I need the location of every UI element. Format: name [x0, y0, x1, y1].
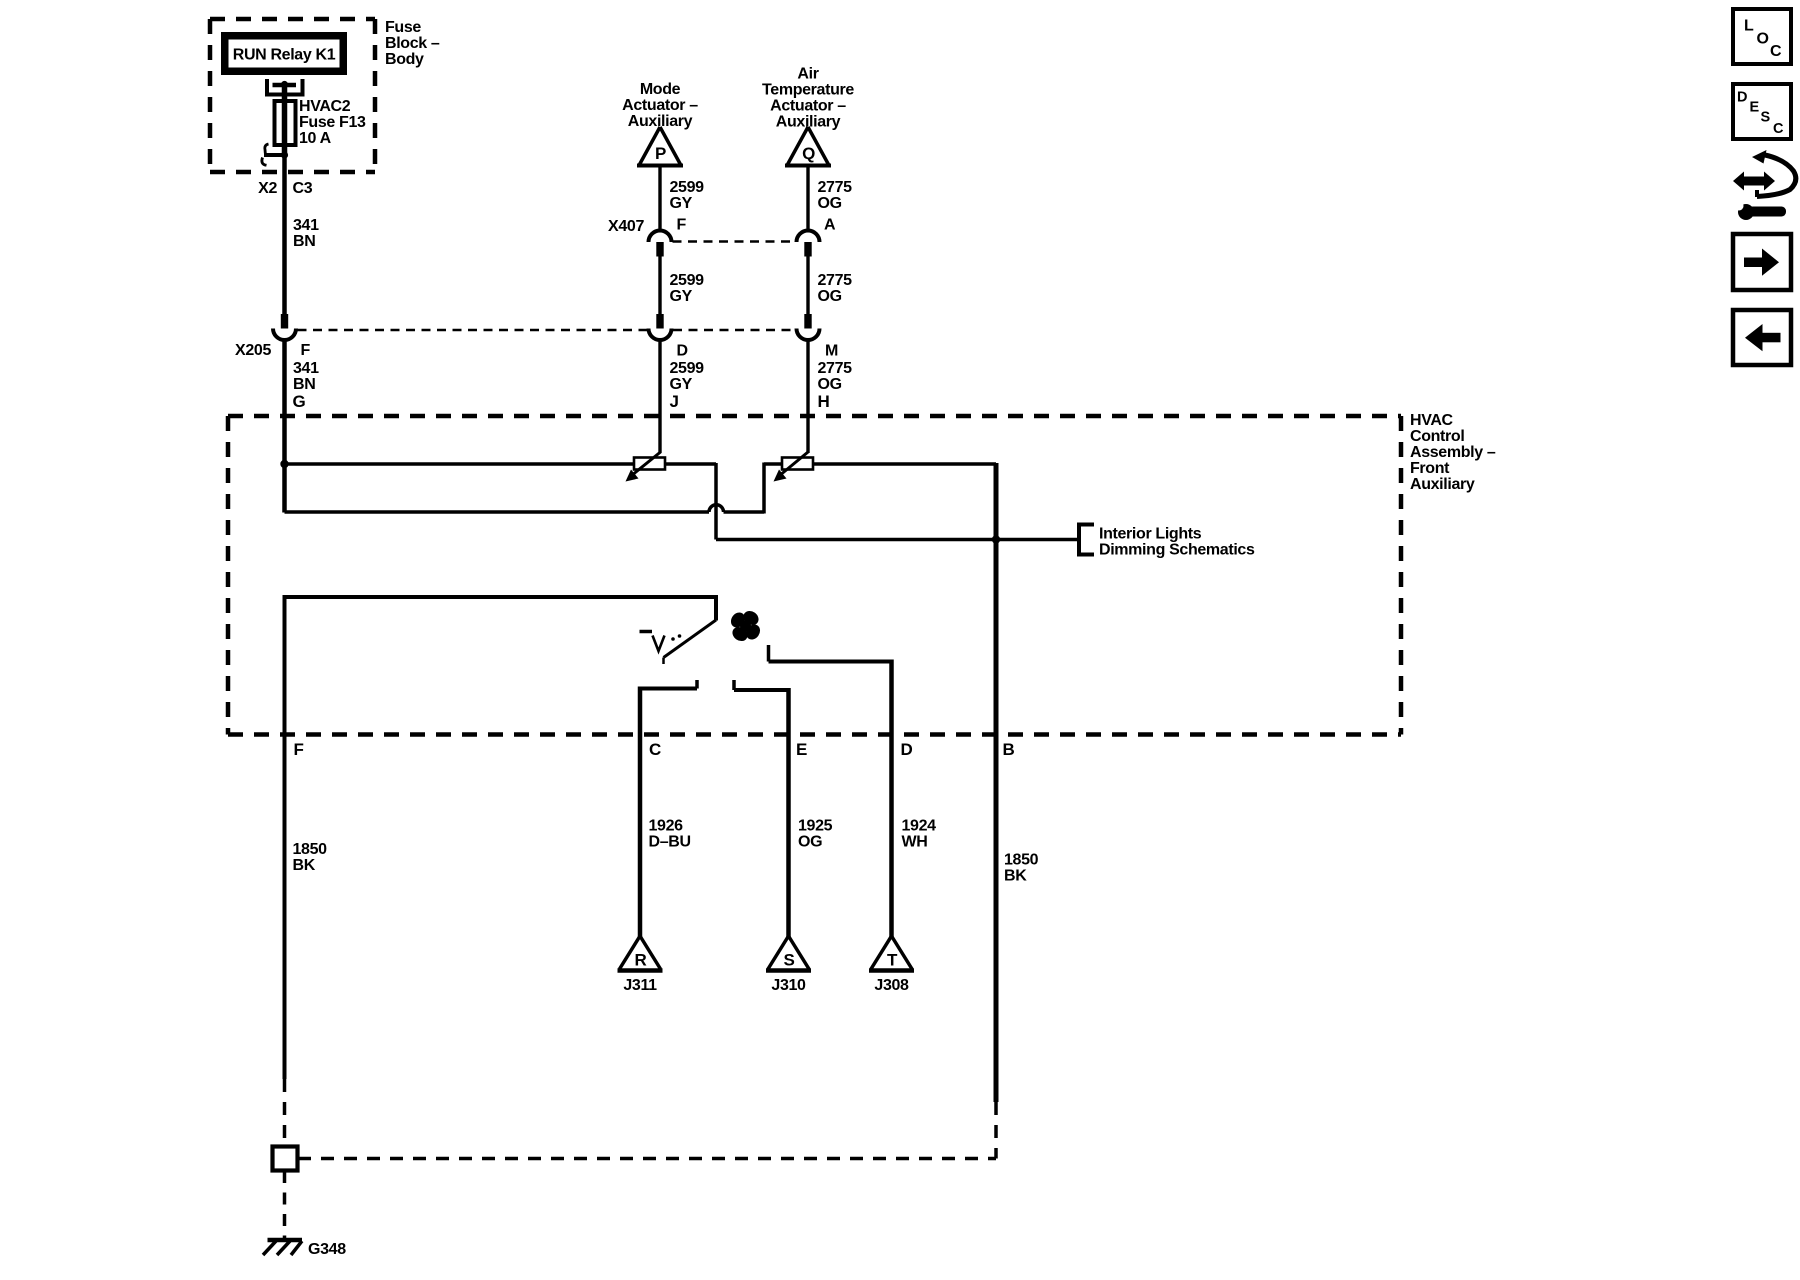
svg-text:1924: 1924 [902, 818, 937, 835]
wire line B lower [285, 463, 997, 514]
svg-text:Fuse F13: Fuse F13 [299, 114, 366, 131]
label 341 BN G [293, 360, 320, 411]
triangle P [640, 127, 681, 165]
svg-text:X2: X2 [258, 180, 277, 197]
svg-text:L: L [1744, 18, 1754, 35]
X205 dashed connector line [298, 329, 649, 332]
label 1925 OG [798, 818, 833, 851]
wire 2599 GY upper [658, 166, 661, 232]
switch dots [671, 637, 675, 641]
wire line C [716, 538, 1078, 542]
svg-text:H: H [818, 392, 830, 411]
svg-text:GY: GY [670, 288, 693, 305]
svg-text:Actuator –: Actuator – [622, 97, 698, 114]
contact C [695, 680, 699, 689]
svg-text:BK: BK [1004, 868, 1027, 885]
icon swap wrench [1733, 150, 1796, 220]
blower fan [728, 608, 763, 644]
wire B dashed [994, 1102, 998, 1159]
dashed ground bus horizontal [298, 1157, 996, 1161]
svg-text:Control: Control [1410, 428, 1464, 445]
svg-text:BK: BK [293, 857, 316, 874]
connector X205 pin M [797, 314, 820, 340]
switch pole tick [640, 630, 653, 634]
svg-text:O: O [1757, 31, 1769, 48]
svg-text:J: J [670, 392, 679, 411]
svg-text:1925: 1925 [798, 818, 833, 835]
dashed wire to ground [283, 1171, 287, 1240]
fuse F13 label [299, 98, 366, 147]
blower feed wire [285, 595, 717, 599]
svg-text:341: 341 [293, 360, 319, 377]
svg-text:Fuse: Fuse [385, 19, 421, 36]
svg-text:C: C [649, 740, 661, 759]
svg-text:C: C [1773, 121, 1784, 137]
svg-text:Dimming Schematics: Dimming Schematics [1099, 542, 1255, 559]
svg-text:F: F [294, 740, 304, 759]
svg-text:1926: 1926 [649, 818, 684, 835]
mode actuator label [622, 81, 698, 130]
X205 dashed D-M [673, 329, 795, 332]
svg-text:X407: X407 [608, 218, 644, 235]
label 341 BN [293, 217, 319, 250]
triangle S J310 [768, 936, 809, 969]
svg-text:341: 341 [293, 217, 319, 234]
svg-text:B: B [1003, 740, 1015, 759]
svg-text:Auxiliary: Auxiliary [1410, 476, 1475, 493]
fuse block body dashed box [210, 19, 375, 172]
HVAC control assembly label [1410, 412, 1496, 493]
wire 2775 OG upper [806, 166, 809, 232]
icon arrow right [1733, 234, 1791, 290]
svg-text:P: P [655, 144, 666, 163]
svg-text:J311: J311 [623, 977, 657, 994]
interior lights bracket [1079, 525, 1094, 555]
svg-text:1850: 1850 [1004, 852, 1039, 869]
connector X407 pin A [797, 231, 820, 257]
ground G348 [263, 1240, 302, 1255]
wire E vertical [786, 688, 791, 938]
svg-text:F: F [301, 342, 311, 359]
svg-text:BN: BN [293, 233, 315, 250]
icon LOC [1733, 9, 1791, 64]
svg-text:S: S [784, 951, 795, 970]
svg-text:10 A: 10 A [299, 130, 332, 147]
svg-text:G348: G348 [308, 1241, 346, 1258]
svg-text:G: G [293, 392, 306, 411]
svg-text:F: F [677, 217, 687, 234]
wire vertical drop from line A [714, 463, 718, 540]
wire H to pot2 [806, 340, 809, 453]
label 1924 WH [902, 818, 937, 851]
label M 2775 OG H [818, 343, 853, 412]
air temperature actuator label [762, 66, 854, 131]
fan right stem [767, 645, 771, 662]
svg-text:Body: Body [385, 51, 424, 68]
svg-text:OG: OG [818, 376, 842, 393]
svg-text:HVAC: HVAC [1410, 412, 1454, 429]
svg-text:Actuator –: Actuator – [770, 98, 846, 115]
switch corner drop [714, 595, 718, 621]
triangle Q [788, 127, 829, 165]
fuse F13 [262, 79, 303, 165]
wire to D [769, 660, 892, 664]
label 1850 BK right [1004, 852, 1039, 885]
wire D vertical [889, 660, 894, 939]
wire F dashed to splice [283, 1079, 287, 1146]
interior lights label [1099, 526, 1255, 559]
wire 2775 OG middle [806, 257, 809, 315]
HVAC control assembly dashed box [228, 416, 1401, 735]
svg-text:2599: 2599 [670, 360, 705, 377]
svg-text:2775: 2775 [818, 179, 853, 196]
X407 dashed connector line [673, 240, 796, 243]
wire C vertical [638, 687, 643, 939]
wire J to pot1 [658, 340, 661, 453]
wire 341 BN G into HVAC box [282, 340, 287, 513]
svg-text:A: A [824, 217, 836, 234]
svg-text:2775: 2775 [818, 272, 853, 289]
fuse block label [385, 19, 440, 68]
svg-text:D: D [677, 343, 688, 360]
svg-text:1850: 1850 [293, 841, 328, 858]
svg-text:BN: BN [293, 376, 315, 393]
wire F vertical [283, 595, 287, 1079]
potentiometer air temp [774, 452, 814, 482]
svg-text:OG: OG [818, 288, 842, 305]
svg-text:T: T [887, 951, 898, 970]
splice box [273, 1147, 298, 1171]
svg-text:2599: 2599 [670, 179, 705, 196]
wire 2599 GY middle [658, 257, 661, 315]
icon arrow left [1733, 310, 1791, 365]
switch blade [664, 620, 717, 658]
svg-text:2599: 2599 [670, 272, 705, 289]
svg-text:D: D [1737, 90, 1747, 106]
connector X205 pin F [273, 314, 296, 340]
triangle T J308 [871, 936, 912, 969]
icon DESC [1733, 84, 1791, 139]
svg-text:Assembly –: Assembly – [1410, 444, 1496, 461]
svg-text:HVAC2: HVAC2 [299, 98, 351, 115]
svg-text:E: E [796, 740, 807, 759]
svg-text:J310: J310 [771, 977, 806, 994]
svg-text:R: R [635, 951, 647, 970]
relay K1 box [221, 32, 347, 75]
svg-text:Q: Q [802, 144, 815, 163]
svg-text:2775: 2775 [818, 360, 853, 377]
svg-text:D–BU: D–BU [649, 834, 691, 851]
svg-text:OG: OG [818, 195, 842, 212]
svg-text:RUN Relay K1: RUN Relay K1 [233, 47, 336, 64]
node junction on G wire [280, 460, 288, 468]
wire line A [285, 462, 717, 466]
svg-text:C: C [1770, 43, 1782, 60]
contact E [732, 680, 736, 690]
svg-text:Mode: Mode [640, 81, 681, 98]
svg-text:GY: GY [670, 195, 693, 212]
svg-text:E: E [1750, 100, 1760, 116]
triangle R J311 [620, 936, 661, 969]
label D 2599 GY J [670, 343, 705, 412]
svg-text:Temperature: Temperature [762, 82, 854, 99]
svg-text:C3: C3 [293, 180, 313, 197]
svg-text:Block –: Block – [385, 35, 440, 52]
wire B vertical [994, 463, 999, 1102]
potentiometer mode [626, 452, 666, 482]
wire 341 BN from fuse to X205 [282, 155, 287, 314]
svg-text:M: M [825, 343, 838, 360]
svg-text:Air: Air [797, 66, 818, 83]
svg-text:X205: X205 [235, 342, 271, 359]
svg-text:S: S [1761, 110, 1771, 126]
label 1850 BK left [293, 841, 328, 874]
svg-text:WH: WH [902, 834, 928, 851]
node junction B / line C [992, 535, 1000, 543]
svg-text:Front: Front [1410, 460, 1450, 477]
svg-text:J308: J308 [874, 977, 909, 994]
connector X407 pin F [649, 231, 672, 257]
label 1926 D-BU [649, 818, 691, 851]
switch v contact [653, 636, 665, 652]
connector X205 pin D [649, 314, 672, 340]
svg-text:D: D [901, 740, 913, 759]
svg-text:Interior Lights: Interior Lights [1099, 526, 1202, 543]
svg-text:OG: OG [798, 834, 822, 851]
svg-text:GY: GY [670, 376, 693, 393]
